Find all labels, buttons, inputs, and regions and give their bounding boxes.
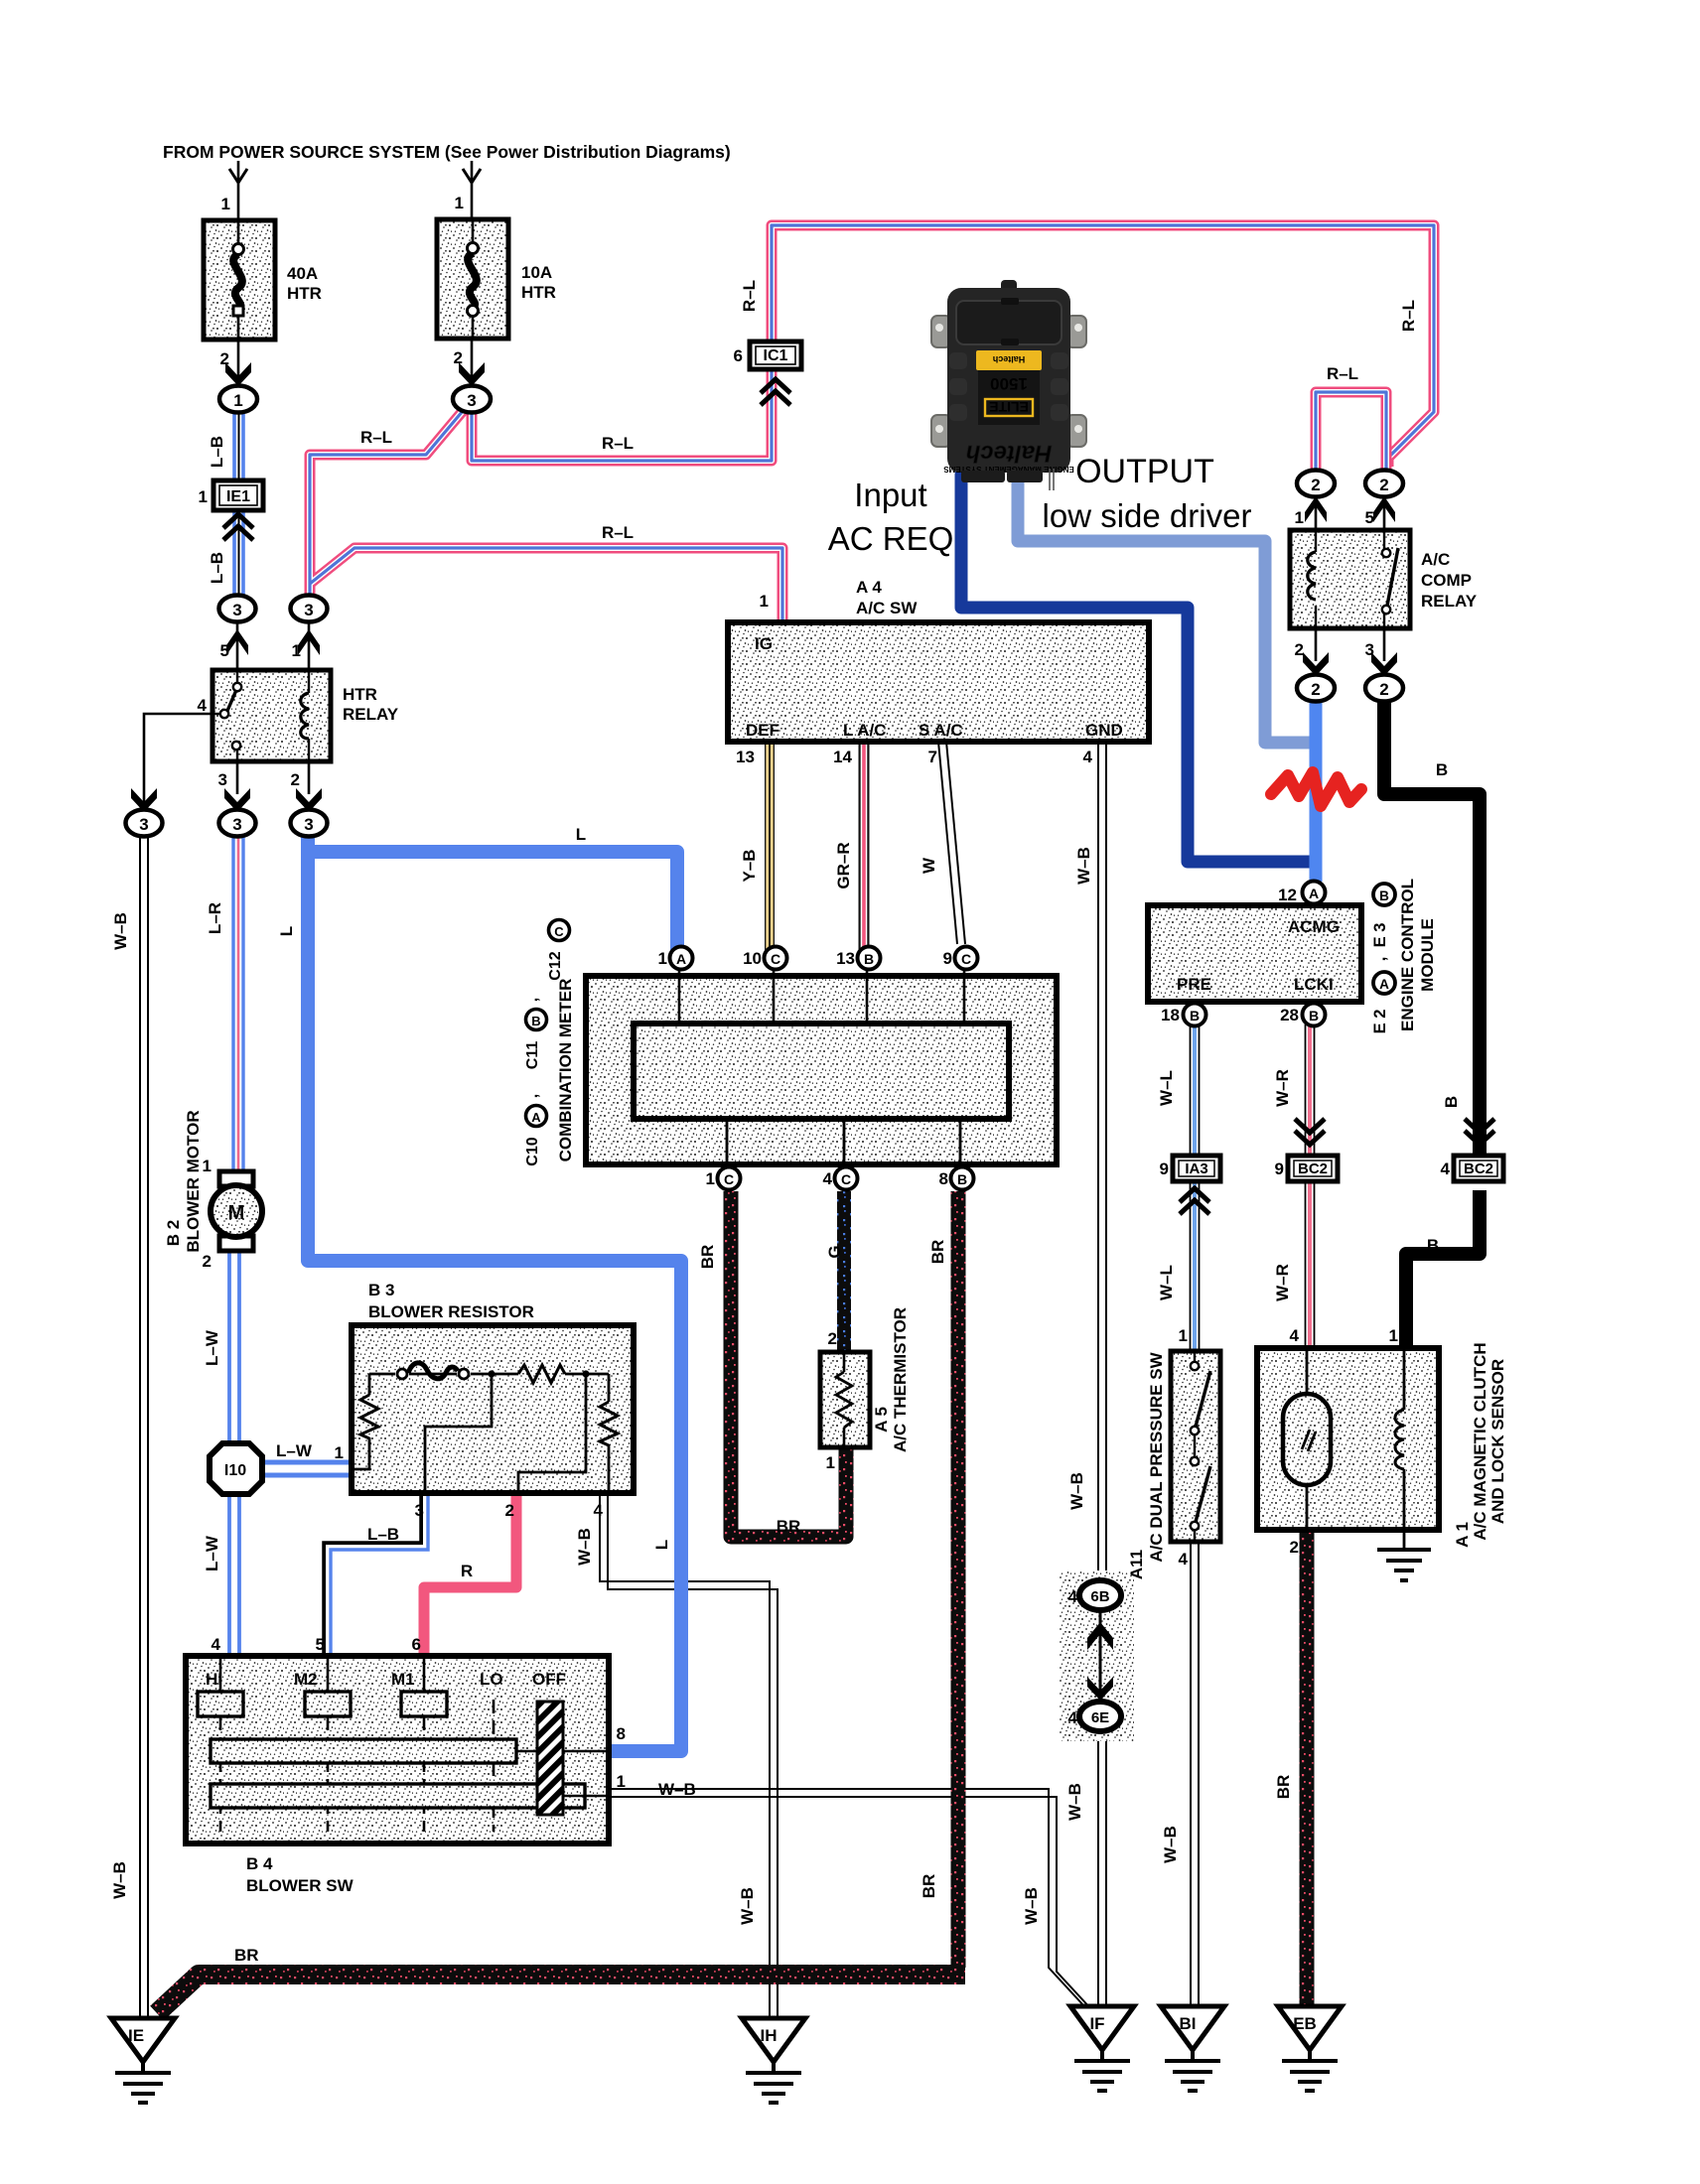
wire L-B 40A fuse to IE1 and HTR relay oval 3 xyxy=(234,399,243,596)
svg-text:IH: IH xyxy=(761,2026,778,2045)
svg-text:ENGINE CONTROL: ENGINE CONTROL xyxy=(1398,879,1417,1031)
wire Y-B A/C SW DEF pin13 to meter 10C xyxy=(765,742,775,953)
svg-text:2: 2 xyxy=(454,348,463,367)
svg-text:1: 1 xyxy=(617,1772,626,1791)
svg-text:A 1: A 1 xyxy=(1453,1522,1472,1548)
svg-text:A/C THERMISTOR: A/C THERMISTOR xyxy=(891,1307,910,1452)
svg-text:L A/C: L A/C xyxy=(843,721,886,740)
svg-text:2: 2 xyxy=(1311,476,1320,494)
svg-text:S A/C: S A/C xyxy=(919,721,963,740)
svg-text:9: 9 xyxy=(1160,1160,1169,1178)
svg-text:C: C xyxy=(771,951,780,967)
svg-text:4: 4 xyxy=(212,1635,221,1654)
connector IC1 xyxy=(750,341,801,405)
svg-text:1: 1 xyxy=(233,391,242,410)
ECM pin 28 B xyxy=(1280,1004,1325,1026)
svg-text:RELAY: RELAY xyxy=(1421,592,1478,611)
connector 9 IA3 xyxy=(1173,1156,1220,1214)
wire R-L loop between A/C comp relay ovals xyxy=(1316,392,1386,474)
svg-text:M2: M2 xyxy=(294,1670,318,1689)
svg-text:RELAY: RELAY xyxy=(343,705,399,724)
svg-text:M: M xyxy=(228,1202,245,1224)
svg-text:8: 8 xyxy=(939,1169,948,1188)
svg-text:5: 5 xyxy=(220,641,229,660)
svg-text:B: B xyxy=(1309,1008,1319,1024)
svg-text:W–L: W–L xyxy=(1157,1070,1176,1106)
switch block A4 A/C SW xyxy=(728,622,1149,742)
svg-text:BR: BR xyxy=(698,1245,717,1270)
stipple patch with 6B 6E connectors xyxy=(1059,1570,1134,1741)
wire R-L 10A fuse oval to IC1 to A/C comp relay ovals xyxy=(472,225,1434,467)
svg-text:,: , xyxy=(524,1094,541,1098)
svg-text:3: 3 xyxy=(232,601,241,619)
svg-text:AND LOCK SENSOR: AND LOCK SENSOR xyxy=(1488,1359,1507,1524)
svg-text:IG: IG xyxy=(755,634,773,653)
combination meter box xyxy=(586,967,1057,1169)
svg-text:A/C: A/C xyxy=(1421,550,1450,569)
wire OUTPUT low side driver (light blue) from Haltech ECU to node above ACMG xyxy=(1018,477,1311,743)
svg-text:L–B: L–B xyxy=(208,436,226,468)
wire G combination meter 4C to A/C thermistor pin2 xyxy=(837,1191,851,1352)
svg-text:IF: IF xyxy=(1089,2014,1104,2033)
svg-text:LCKI: LCKI xyxy=(1294,975,1334,994)
svg-text:BR: BR xyxy=(928,1240,947,1265)
svg-text:B: B xyxy=(531,1014,540,1028)
svg-text:R–L: R–L xyxy=(1399,300,1418,332)
svg-text:B 2: B 2 xyxy=(164,1220,183,1246)
svg-text:R–L: R–L xyxy=(602,523,634,542)
ECM pin 12 A xyxy=(1278,882,1325,905)
svg-text:4: 4 xyxy=(823,1169,833,1188)
svg-text:M1: M1 xyxy=(391,1670,415,1689)
wire W from A/C SW pin7 to combination meter 9C xyxy=(938,742,965,944)
svg-text:4: 4 xyxy=(198,696,208,715)
svg-text:3: 3 xyxy=(467,391,476,410)
svg-text:HTR: HTR xyxy=(343,685,377,704)
svg-text:L–W: L–W xyxy=(276,1441,313,1460)
svg-text:IE1: IE1 xyxy=(226,488,250,505)
connector 9 BC2 xyxy=(1288,1119,1338,1181)
svg-text:2: 2 xyxy=(828,1329,837,1348)
svg-text:6: 6 xyxy=(734,346,743,365)
svg-text:1: 1 xyxy=(292,641,301,660)
wire BR A/C magnetic clutch pin2 to ground EB xyxy=(1300,1530,1315,2006)
svg-text:2: 2 xyxy=(203,1252,212,1271)
relay HTR RELAY xyxy=(212,670,331,761)
svg-text:W–B: W–B xyxy=(1161,1826,1180,1863)
svg-text:C12: C12 xyxy=(547,951,564,980)
svg-text:14: 14 xyxy=(833,748,852,766)
svg-text:1500: 1500 xyxy=(990,374,1028,393)
svg-text:OFF: OFF xyxy=(532,1670,566,1689)
svg-text:C: C xyxy=(841,1171,851,1187)
svg-text:ELITE: ELITE xyxy=(989,399,1029,415)
svg-text:,: , xyxy=(1371,957,1389,962)
motor B2 BLOWER MOTOR xyxy=(211,1171,262,1251)
svg-text:1: 1 xyxy=(199,487,208,506)
svg-text:A/C DUAL PRESSURE SW: A/C DUAL PRESSURE SW xyxy=(1147,1351,1166,1562)
svg-text:4: 4 xyxy=(594,1501,604,1520)
connector oval 3 below relay pin3 xyxy=(236,761,239,794)
wire BR bus to ground IE xyxy=(157,1975,965,2013)
label E2 A E3 B ENGINE CONTROL MODULE xyxy=(1371,879,1437,1033)
svg-text:B: B xyxy=(1190,1008,1200,1024)
svg-text:BR: BR xyxy=(234,1946,259,1965)
wire W-R ECM LCKI 28B to A/C magnetic clutch pin4 xyxy=(1306,1024,1315,1348)
connector ovals 2 below A/C comp relay xyxy=(1316,628,1384,661)
svg-text:9: 9 xyxy=(943,949,952,968)
svg-text:A 5: A 5 xyxy=(872,1407,891,1433)
svg-text:13: 13 xyxy=(836,949,855,968)
svg-text:A/C MAGNETIC CLUTCH: A/C MAGNETIC CLUTCH xyxy=(1471,1342,1489,1540)
wire L-R HTR relay oval to blower motor pin1 xyxy=(233,836,243,1173)
red scribble annotation over wire xyxy=(1271,772,1361,806)
svg-text:W–R: W–R xyxy=(1273,1069,1292,1107)
ground EB xyxy=(1278,2006,1342,2091)
svg-text:R: R xyxy=(461,1562,473,1580)
svg-text:4: 4 xyxy=(1068,1708,1078,1727)
svg-text:IC1: IC1 xyxy=(764,347,788,364)
ground symbol below A1 coil xyxy=(1377,1530,1431,1580)
svg-text:A: A xyxy=(676,951,686,967)
svg-text:DEF: DEF xyxy=(746,721,779,740)
fuse 40A HTR xyxy=(204,161,275,340)
wire W-B blower resistor pin4 to ground IH xyxy=(600,1493,778,2016)
svg-text:L: L xyxy=(652,1540,671,1550)
Haltech Elite 1500 ECU xyxy=(931,280,1086,490)
wire L-W blower motor pin2 to I10 to blower SW pin4 xyxy=(229,1249,239,1660)
svg-text:2: 2 xyxy=(1379,476,1388,494)
thermistor A5 A/C THERMISTOR xyxy=(820,1352,870,1447)
svg-text:BI: BI xyxy=(1180,2014,1197,2033)
meter top pin 1 A xyxy=(658,947,693,970)
wire W-B A/C dual pressure SW pin4 to ground BI xyxy=(1191,1542,1199,2006)
svg-text:3: 3 xyxy=(415,1501,424,1520)
svg-text:BR: BR xyxy=(777,1517,801,1536)
svg-text:HTR: HTR xyxy=(287,284,322,303)
svg-text:13: 13 xyxy=(736,748,755,766)
svg-text:B: B xyxy=(1436,760,1448,779)
svg-text:2: 2 xyxy=(1379,680,1388,699)
svg-text:10: 10 xyxy=(743,949,762,968)
wire GR-R A/C SW L A/C pin14 to meter 13B xyxy=(859,742,870,953)
wire W-B A/C SW GND pin4 to ground IF xyxy=(1098,742,1106,2006)
meter bottom pin 8 B xyxy=(939,1167,974,1190)
svg-text:BR: BR xyxy=(920,1874,938,1899)
ground BI xyxy=(1161,2006,1224,2091)
svg-text:BC2: BC2 xyxy=(1298,1160,1328,1177)
meter bottom pin 4 C xyxy=(823,1167,858,1190)
svg-text:L–W: L–W xyxy=(203,1535,221,1571)
switch A11 A/C DUAL PRESSURE SW xyxy=(1171,1351,1220,1542)
ground IE xyxy=(111,2018,175,2103)
svg-text:W–B: W–B xyxy=(111,912,130,950)
svg-text:E 2: E 2 xyxy=(1371,1010,1389,1034)
svg-text:BLOWER RESISTOR: BLOWER RESISTOR xyxy=(368,1302,534,1321)
svg-text:A: A xyxy=(531,1110,541,1125)
wire W-L ECM PRE 18B to dual pressure SW pin1 xyxy=(1191,1024,1200,1351)
svg-text:3: 3 xyxy=(139,815,148,834)
wire R blower resistor pin2 to blower SW pin6 xyxy=(424,1493,516,1660)
svg-text:A 4: A 4 xyxy=(856,578,882,597)
wire BR combination meter 8B down to BR bus xyxy=(951,1191,966,1968)
svg-text:2: 2 xyxy=(1311,680,1320,699)
svg-text:W–B: W–B xyxy=(575,1528,594,1566)
svg-text:W: W xyxy=(920,857,938,874)
wire R-L 10A fuse oval branch to HTR relay oval 3 and A/C SW IG pin1 xyxy=(310,411,782,625)
svg-text:B: B xyxy=(957,1171,967,1187)
svg-text:1: 1 xyxy=(1179,1326,1188,1345)
connector IE1 xyxy=(213,480,263,540)
svg-text:B 4: B 4 xyxy=(246,1854,273,1873)
svg-text:W–B: W–B xyxy=(1074,847,1093,885)
svg-text:BC2: BC2 xyxy=(1464,1160,1493,1177)
svg-text:1: 1 xyxy=(221,195,230,213)
svg-text:L: L xyxy=(277,926,296,936)
svg-text:W–B: W–B xyxy=(110,1861,129,1899)
svg-text:3: 3 xyxy=(304,815,313,834)
svg-text:4: 4 xyxy=(1441,1160,1451,1178)
wire W-B blower switch pin1 to ground IF xyxy=(609,1789,1092,2010)
wire L-W I10 to blower resistor pin1 xyxy=(260,1462,353,1475)
svg-text:L–R: L–R xyxy=(206,902,224,934)
svg-text:18: 18 xyxy=(1161,1006,1180,1024)
meter bottom pin 1 C xyxy=(706,1167,741,1190)
svg-text:B: B xyxy=(864,951,874,967)
svg-text:G: G xyxy=(825,1245,844,1258)
svg-text:W–B: W–B xyxy=(1067,1472,1086,1510)
ECM box (ACMG PRE LCKI) xyxy=(1148,905,1361,1002)
svg-text:7: 7 xyxy=(928,748,937,766)
svg-text:1: 1 xyxy=(658,949,667,968)
wire L (bright blue) A/C comp relay oval 2 to ECM ACMG 12A xyxy=(1310,695,1323,882)
svg-text:OUTPUT: OUTPUT xyxy=(1075,453,1214,490)
svg-text:C: C xyxy=(961,951,971,967)
svg-text:low side driver: low side driver xyxy=(1043,497,1252,534)
ground IH xyxy=(742,2018,805,2103)
svg-text:W–B: W–B xyxy=(1065,1783,1084,1821)
svg-text:6B: 6B xyxy=(1090,1588,1109,1605)
connector 4 BC2 xyxy=(1454,1119,1503,1181)
connector ovals 2 above A/C comp relay xyxy=(1316,497,1384,530)
svg-text:GND: GND xyxy=(1085,721,1123,740)
svg-text:COMBINATION METER: COMBINATION METER xyxy=(556,979,575,1162)
svg-text:Input: Input xyxy=(854,477,926,513)
svg-text:ACMG: ACMG xyxy=(1288,917,1340,936)
svg-text:R–L: R–L xyxy=(360,428,392,447)
svg-text:Y–B: Y–B xyxy=(740,849,759,882)
svg-text:FROM POWER SOURCE SYSTEM (See: FROM POWER SOURCE SYSTEM (See Power Dist… xyxy=(163,142,731,162)
svg-text:PRE: PRE xyxy=(1177,975,1211,994)
meter top pin 9 C xyxy=(943,947,978,970)
svg-text:9: 9 xyxy=(1275,1160,1284,1178)
svg-text:R–L: R–L xyxy=(602,434,634,453)
svg-text:6E: 6E xyxy=(1091,1709,1109,1726)
svg-text:A: A xyxy=(1309,886,1319,901)
label C12 C xyxy=(547,920,570,981)
svg-text:A11: A11 xyxy=(1127,1550,1146,1579)
svg-text:W–B: W–B xyxy=(1022,1887,1041,1925)
svg-text:A/C SW: A/C SW xyxy=(856,599,918,617)
svg-text:HTR: HTR xyxy=(521,283,556,302)
svg-text:BLOWER MOTOR: BLOWER MOTOR xyxy=(184,1110,203,1252)
fuse 10A HTR xyxy=(437,161,508,339)
svg-text:B: B xyxy=(1442,1096,1461,1108)
svg-text:C11: C11 xyxy=(524,1041,541,1070)
connector oval 1 (40A output) xyxy=(219,386,257,413)
svg-text:10A: 10A xyxy=(521,263,552,282)
wire Input AC REQ (dark blue) from Haltech ECU to node above ACMG xyxy=(961,475,1311,862)
svg-text:L–B: L–B xyxy=(208,552,226,584)
svg-text:1: 1 xyxy=(335,1443,344,1462)
svg-text:1: 1 xyxy=(455,194,464,212)
svg-text:4: 4 xyxy=(1179,1550,1189,1569)
svg-text:1: 1 xyxy=(826,1453,835,1472)
svg-text:AC REQ: AC REQ xyxy=(828,520,954,557)
svg-text:2: 2 xyxy=(1295,640,1304,659)
svg-text:MODULE: MODULE xyxy=(1418,918,1437,992)
relay A/C COMP RELAY xyxy=(1290,530,1410,628)
svg-text:8: 8 xyxy=(617,1724,626,1743)
svg-text:1: 1 xyxy=(706,1169,715,1188)
svg-text:C10: C10 xyxy=(524,1137,541,1165)
svg-text:IE: IE xyxy=(128,2026,144,2045)
svg-text:1: 1 xyxy=(1389,1326,1398,1345)
svg-text:5: 5 xyxy=(1365,508,1374,527)
svg-text:R–L: R–L xyxy=(740,280,759,312)
svg-text:EB: EB xyxy=(1293,2014,1317,2033)
svg-text:1: 1 xyxy=(760,592,769,611)
svg-text:28: 28 xyxy=(1280,1006,1299,1024)
svg-text:5: 5 xyxy=(316,1635,325,1654)
connector oval 3 below relay pin2 xyxy=(308,761,311,794)
svg-text:3: 3 xyxy=(218,770,227,789)
wire L HTR relay oval to combination meter 1A branch xyxy=(308,830,677,953)
svg-text:6: 6 xyxy=(412,1635,421,1654)
svg-text:I10: I10 xyxy=(224,1462,246,1479)
svg-text:COMP: COMP xyxy=(1421,571,1472,590)
svg-text:W–R: W–R xyxy=(1273,1264,1292,1301)
wire from HTR relay pin4 to oval 3 left xyxy=(144,714,212,804)
svg-text:Haltech: Haltech xyxy=(966,440,1053,467)
svg-text:BLOWER SW: BLOWER SW xyxy=(246,1876,354,1895)
svg-text:B: B xyxy=(1427,1236,1439,1255)
svg-text:2: 2 xyxy=(505,1501,514,1520)
svg-text:C: C xyxy=(724,1171,734,1187)
meter top pin 10 C xyxy=(743,947,786,970)
connector oval 3 above HTR relay pin5 xyxy=(219,596,256,622)
svg-text:3: 3 xyxy=(232,815,241,834)
svg-text:,: , xyxy=(524,998,541,1002)
svg-text:W–B: W–B xyxy=(658,1780,696,1799)
wire L-B blower resistor pin3 to blower SW pin5 xyxy=(326,1493,428,1660)
svg-text:BR: BR xyxy=(1274,1775,1293,1800)
wire BR combination meter 1C to A/C thermistor pin1 xyxy=(731,1191,846,1537)
svg-text:40A: 40A xyxy=(287,264,318,283)
wire W-B from HTR relay pin4 connector to ground IE xyxy=(140,836,148,2016)
svg-text:W–L: W–L xyxy=(1157,1265,1176,1300)
svg-text:1: 1 xyxy=(1295,508,1304,527)
svg-text:L–B: L–B xyxy=(367,1525,399,1544)
ground IF xyxy=(1070,2006,1134,2091)
sensor A1 A/C MAGNETIC CLUTCH AND LOCK SENSOR xyxy=(1257,1348,1439,1530)
svg-text:B 3: B 3 xyxy=(368,1281,394,1299)
svg-text:4: 4 xyxy=(1068,1587,1078,1606)
ECM pin 18 B xyxy=(1161,1004,1205,1026)
svg-text:1: 1 xyxy=(203,1157,212,1175)
label C10 A , C11 B xyxy=(524,998,547,1166)
connector arrow into oval 1 below 40A fuse xyxy=(237,340,240,383)
wire B from A/C comp relay pin3 to BC2 and A/C magnetic clutch pin1 xyxy=(1384,695,1480,1158)
svg-text:HI: HI xyxy=(206,1670,222,1689)
connector arrow into oval 3 below 10A fuse xyxy=(471,339,474,383)
meter top pin 13 B xyxy=(836,947,880,970)
svg-text:GR–R: GR–R xyxy=(834,842,853,888)
svg-text:Haltech: Haltech xyxy=(993,354,1026,364)
svg-text:2: 2 xyxy=(220,349,229,368)
connector oval 3 below relay pin4 xyxy=(126,810,163,837)
svg-text:LO: LO xyxy=(480,1670,503,1689)
svg-text:L–W: L–W xyxy=(203,1329,221,1366)
svg-text:E 3: E 3 xyxy=(1371,923,1389,948)
svg-text:A: A xyxy=(1379,977,1389,992)
svg-text:4: 4 xyxy=(1083,748,1093,766)
svg-text:4: 4 xyxy=(1290,1326,1300,1345)
connector oval 3 above HTR relay pin1 xyxy=(291,596,328,622)
svg-text:W–B: W–B xyxy=(738,1887,757,1925)
svg-text:L: L xyxy=(576,825,586,844)
svg-text:C: C xyxy=(554,924,564,939)
svg-text:B: B xyxy=(1379,888,1389,903)
svg-text:R–L: R–L xyxy=(1327,364,1358,383)
resistor block B3 BLOWER RESISTOR xyxy=(352,1325,634,1493)
svg-text:2: 2 xyxy=(291,770,300,789)
svg-text:2: 2 xyxy=(1290,1538,1299,1557)
switch block B4 BLOWER SW xyxy=(186,1656,609,1843)
connector I10 octagon xyxy=(210,1443,262,1494)
svg-text:IA3: IA3 xyxy=(1185,1160,1207,1177)
wire L main run to blower SW pin8 xyxy=(308,844,681,1751)
svg-text:3: 3 xyxy=(1365,640,1374,659)
svg-text:3: 3 xyxy=(304,601,313,619)
svg-text:12: 12 xyxy=(1278,886,1297,904)
connector oval 3 (10A output) xyxy=(453,386,491,413)
